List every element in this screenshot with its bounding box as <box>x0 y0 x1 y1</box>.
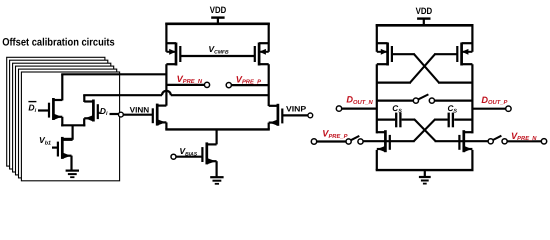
wire: Dbar_i gate lead <box>38 109 49 111</box>
node V_PRE_N output stub <box>166 84 204 86</box>
offset calibration block layer 3 <box>13 63 111 172</box>
node VINP terminal <box>308 113 313 118</box>
wire: right PMOS gate cross-couple to left drain <box>434 53 457 55</box>
node D_OUT_P terminal <box>472 108 505 110</box>
node V_BIAS terminal <box>171 154 176 159</box>
wire: right cap to left NMOS gate diagonal <box>414 119 436 141</box>
node VINN terminal <box>119 112 124 117</box>
wire: right NMOS gate line <box>435 140 489 142</box>
wire: D_i source to common node <box>83 118 85 126</box>
wire: left NMOS source to ground rail <box>376 150 378 170</box>
power rail VDD (latch) <box>376 24 474 27</box>
label Dbar_i <box>28 101 36 103</box>
wire: V_BIAS gate lead <box>176 156 202 158</box>
wire: Dbar_i drain to V_PRE_N node <box>61 74 63 100</box>
offset calibration block layer 0 <box>21 72 119 181</box>
svg-text:VINN: VINN <box>130 105 150 114</box>
wire: Vb1 source to ground <box>70 156 72 171</box>
cross-coupled NMOS left <box>377 130 390 152</box>
transistor VINP input (NMOS) <box>269 104 283 126</box>
wire: common source down to Vb1 drain <box>71 125 73 140</box>
ground (offset block) <box>66 171 79 178</box>
wire: common source join <box>61 124 85 126</box>
wire: Vb1 gate lead <box>52 147 58 149</box>
capacitor C_S right <box>435 113 473 128</box>
VDD supply symbol (pre-amp) <box>210 5 227 24</box>
offset calibration block layer 1 <box>19 69 117 178</box>
node V_PRE_P output stub <box>226 83 231 88</box>
wire: V_BIAS source to ground <box>216 161 218 177</box>
wire: D_OUT_N vertical <box>376 64 378 133</box>
transistor D_i (NMOS) <box>84 100 98 122</box>
wire: VDD rail to left PMOS source <box>165 23 167 52</box>
offset calibration block layer 5 <box>7 57 105 166</box>
svg-text:VINP: VINP <box>286 105 306 114</box>
wire: left PMOS gate cross-couple to right drain <box>392 53 415 55</box>
wire: VINP gate lead <box>282 114 308 116</box>
svg-text:Offset calibration circuits: Offset calibration circuits <box>2 37 115 49</box>
wire: Dbar_i source to common node <box>61 117 63 127</box>
PMOS load right (V_CMFB) <box>255 43 269 66</box>
wire: latch ground rail <box>376 169 474 171</box>
svg-text:VDD: VDD <box>416 6 433 16</box>
transistor Vb1 tail current source (NMOS) <box>58 137 72 159</box>
power rail VDD (pre-amp) <box>165 22 269 25</box>
wire: left NMOS gate line <box>363 140 415 142</box>
wire: tail node line <box>165 128 269 130</box>
cross-coupled PMOS right <box>457 43 472 66</box>
transistor V_BIAS tail current source (NMOS) <box>202 142 216 164</box>
offset calibration block layer 4 <box>10 60 108 169</box>
ground (pre-amp) <box>210 177 223 184</box>
wire: left branch V_PRE_N vertical <box>165 64 167 106</box>
offset calibration block layer 2 <box>16 66 114 175</box>
cross-coupled PMOS left <box>377 43 392 66</box>
VDD supply symbol (latch) <box>416 6 433 25</box>
wire: V_CMFB gate line <box>180 55 255 57</box>
switch: V_PRE_N sampling <box>488 136 541 144</box>
ground (latch) <box>419 177 431 184</box>
switch: V_PRE_P sampling <box>317 136 363 144</box>
node V_PRE_N input terminal <box>541 139 546 144</box>
capacitor C_S left <box>377 113 415 128</box>
transistor VINN input (NMOS) <box>153 104 167 126</box>
wire: D_i drain to V_PRE_P node (hops over V_PRE_N line) <box>83 95 85 102</box>
wire: D_i gate lead <box>98 112 100 114</box>
wire: VINN source down <box>165 122 167 129</box>
wire: right NMOS source to ground rail <box>471 150 473 170</box>
wire: rail to latch right PMOS <box>471 24 473 52</box>
node V_PRE_P input terminal <box>311 139 316 144</box>
wire: D_OUT_P vertical <box>471 64 473 133</box>
transistor Dbar_i (NMOS) <box>49 98 62 120</box>
svg-text:VDD: VDD <box>210 5 227 15</box>
wire: right branch V_PRE_P vertical <box>268 64 270 106</box>
wire: rail to ground symbol <box>424 170 426 177</box>
wire: VDD rail to right PMOS source <box>268 23 270 52</box>
wire: tail line to V_BIAS drain <box>216 129 218 144</box>
wire: VINN gate lead <box>123 114 153 116</box>
switch: output equalization <box>377 94 473 103</box>
wire: left cap to right NMOS gate diagonal <box>414 119 436 141</box>
wire: rail to latch left PMOS <box>376 24 378 52</box>
op PMOS load left (V_CMFB) <box>166 43 180 66</box>
node D_OUT_N terminal <box>342 107 377 109</box>
wire: VINP source down <box>268 123 270 130</box>
cross-coupled NMOS right <box>459 130 472 152</box>
